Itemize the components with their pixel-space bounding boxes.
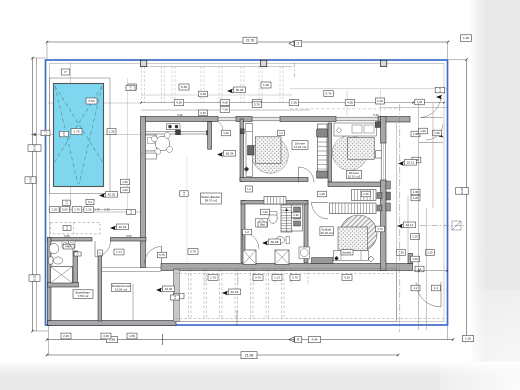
door arc terrace right [416,282,441,307]
svg-text:1.2: 1.2 [129,86,133,90]
counter edge [141,152,157,154]
side yard line [127,78,129,210]
svg-text:8.10: 8.10 [33,275,37,281]
svg-text:1.26: 1.26 [434,131,440,135]
room label bed2 [347,171,362,179]
pergola post 1 [141,60,147,66]
wall midblock west [241,201,245,263]
bottom dimension line 2 [46,352,399,359]
wall top segment D [378,117,410,123]
svg-text:5.76: 5.76 [190,250,196,254]
wall midblock north [241,201,308,205]
upper dim line 2 [141,91,310,112]
svg-text:Bad: Bad [260,223,265,227]
left dimension lines [31,57,48,332]
svg-text:42.02: 42.02 [231,290,239,294]
wardrobe boxes east [386,181,391,211]
right corridor dim lines [397,103,434,330]
pier bottom right [408,254,413,264]
room label bed3 [341,250,353,255]
svg-text:60.38: 60.38 [226,151,234,155]
pergola marker [227,87,246,93]
wardrobe between beds [317,124,328,178]
terrace tick [236,310,238,326]
top-right corner dim label [461,35,472,42]
svg-text:21.08: 21.08 [245,353,254,357]
window top 3 [336,117,378,121]
bath door arc [243,233,260,250]
svg-text:1.75: 1.75 [74,208,80,212]
right dim label [456,187,469,195]
terrace outline [174,269,397,322]
svg-text:5,36: 5,36 [373,113,379,117]
wall annex top b [111,238,147,242]
wall annex bottom [48,321,177,326]
svg-text:3.5: 3.5 [62,132,66,136]
pool dim row line [49,210,147,213]
svg-text:5.05: 5.05 [64,234,70,238]
kitchen label [222,130,231,136]
dashed area 1 [51,222,101,234]
gate arc upper [421,96,444,118]
wall beds east lower [381,180,387,271]
bottom dim label b [309,336,321,342]
top dimension line [46,37,449,59]
pergola label 1 [128,84,137,90]
svg-text:1.2: 1.2 [64,200,68,204]
svg-text:5.50: 5.50 [88,99,94,103]
svg-text:2.26: 2.26 [63,334,69,338]
bottom axis marker [289,337,302,343]
grey margin right [470,0,520,390]
svg-text:2: 2 [297,42,299,46]
svg-text:1.36: 1.36 [122,180,128,184]
staircase [281,205,292,232]
bottom dim labels row [208,275,352,281]
svg-text:10.12: 10.12 [406,223,414,227]
svg-text:4.36: 4.36 [103,334,109,338]
svg-text:7.09: 7.09 [222,108,228,112]
bed2 fixture [376,151,382,159]
wall midblock east [304,201,308,263]
kids room label [112,284,131,292]
svg-text:1.2: 1.2 [129,210,133,214]
svg-text:13.96: 13.96 [460,187,464,195]
svg-text:1.20: 1.20 [417,100,423,104]
wall bed1 west [240,119,244,182]
corridor label small [246,186,253,192]
wall top segment A [141,117,218,122]
pool label right [107,129,116,135]
svg-text:1.76: 1.76 [210,276,216,280]
pergola post 2 [261,60,267,66]
svg-text:1.13: 1.13 [274,276,280,280]
svg-text:10.12: 10.12 [407,160,415,164]
thin divider x133 [132,284,134,320]
elevation marker east1 [398,160,417,166]
pergola label 5 [261,82,271,88]
svg-text:1.26: 1.26 [412,235,418,239]
bed 2 with rug [332,122,380,171]
svg-text:1.26: 1.26 [52,208,58,212]
svg-text:5.75: 5.75 [159,253,165,257]
pool dim row labels [50,199,136,214]
kitchen marker [217,151,236,157]
svg-text:2.30: 2.30 [104,208,110,212]
window top 1 [218,117,236,121]
wall interior x98 [98,252,102,322]
svg-text:1.26: 1.26 [412,257,418,261]
bottom-right corner dim label [463,335,474,341]
door arc annex [95,241,111,257]
plain text 5.05a [64,234,70,238]
wall bottom main [161,264,413,271]
svg-text:14.00 m2: 14.00 m2 [115,288,128,292]
svg-text:4.00: 4.00 [222,101,228,105]
svg-text:HWR: HWR [65,245,71,249]
door arc bed3 [312,202,329,219]
kitchen door arc [218,122,223,132]
svg-text:2.30: 2.30 [200,111,206,115]
floor rot label [180,191,189,197]
svg-text:3.96: 3.96 [29,177,33,183]
wall text 5.36a [177,113,183,117]
wall bed1 south [240,178,308,182]
pool label rot [60,131,69,137]
svg-text:2.28: 2.28 [200,92,206,96]
svg-text:1.2: 1.2 [414,286,418,290]
bed 3 with round rug [334,215,378,262]
bottom rot label [174,293,184,299]
pergola label 2 [179,84,189,90]
svg-text:1.89: 1.89 [129,334,135,338]
pergola beams [141,62,447,116]
bathroom fixtures [256,212,310,259]
svg-text:1.2: 1.2 [245,230,249,234]
svg-text:5.36: 5.36 [181,85,187,89]
stair arrow [285,208,288,232]
shaft X 1 [275,250,289,265]
door arc hall [299,167,315,183]
bottom dimension line 1 [46,326,454,355]
grid line y134 with arrow [31,133,141,136]
left dim label 2 [25,177,36,184]
svg-text:60.38: 60.38 [271,240,279,244]
pool deck outline [50,78,111,194]
svg-text:1.02: 1.02 [377,99,383,103]
bottom dim label a [107,336,118,342]
scattered dim labels [121,110,442,291]
svg-text:1.2: 1.2 [44,131,48,135]
elevation marker right [436,95,442,100]
svg-text:1.76: 1.76 [377,227,383,231]
left dim label 1 [28,144,41,152]
dashed area marker [110,224,129,230]
svg-text:16.10 m2: 16.10 m2 [320,231,333,235]
svg-text:5.76: 5.76 [292,276,298,280]
svg-text:5.76: 5.76 [255,276,261,280]
right axis line [420,221,464,230]
elevation marker hall [262,239,281,245]
wall top segment C [280,117,336,122]
svg-text:21.76: 21.76 [246,39,254,43]
svg-text:1.2: 1.2 [438,88,442,92]
svg-text:5.50: 5.50 [62,208,68,212]
dashed area label rot [63,226,71,231]
wardrobe strip 2 [330,203,383,214]
svg-text:5.76: 5.76 [254,103,260,107]
top axis marker [289,41,302,47]
svg-text:1.26: 1.26 [420,129,426,133]
window top 2 [252,117,280,121]
svg-text:14.36: 14.36 [33,144,37,152]
pool label on boundary [41,130,50,136]
wall mid horizontal [328,182,386,187]
svg-text:1.36: 1.36 [413,132,419,136]
pool label 5.50 [86,98,97,104]
svg-text:1.26: 1.26 [223,131,229,135]
gate label [415,99,425,105]
ne corner rot label [435,87,445,93]
wall wc horizontal [48,283,79,288]
grey corner glow [440,290,520,390]
svg-text:2.36: 2.36 [363,192,369,196]
svg-text:1.26: 1.26 [319,192,325,196]
wall bed divider [328,123,332,182]
svg-text:10.36: 10.36 [165,287,173,291]
room label bed1 [292,141,308,150]
svg-text:1.2: 1.2 [65,226,69,230]
svg-text:42.02: 42.02 [119,225,127,229]
svg-text:1.26: 1.26 [108,130,114,134]
wall top segment B [236,117,252,122]
svg-text:4.00: 4.00 [347,101,353,105]
kitchen counter and cooktop [146,124,211,135]
svg-text:60.38: 60.38 [236,88,244,92]
round dining table with chairs [152,133,173,155]
svg-text:1.2: 1.2 [247,187,251,191]
svg-text:1.02: 1.02 [263,83,269,87]
grid line y103 [48,102,141,104]
svg-text:1.36: 1.36 [413,190,419,194]
svg-text:15.10 m2: 15.10 m2 [348,175,361,179]
svg-text:1.75: 1.75 [73,130,79,134]
terrace marker 2 [222,289,241,295]
svg-text:1.71: 1.71 [116,250,122,254]
wall wc vertical [73,251,78,284]
annex bottom labels [61,333,137,339]
upper dim line [140,102,445,104]
window east [381,143,385,180]
bed3 hall label [320,227,334,236]
svg-text:4.26: 4.26 [176,101,182,105]
svg-text:1.76: 1.76 [94,208,100,212]
gate arc lower [419,125,444,143]
technik label [73,290,93,299]
inner offset line [50,64,445,322]
wall annex top [48,238,93,242]
svg-text:42.02: 42.02 [108,192,116,196]
swimming pool [54,84,104,187]
svg-text:14.20 m2: 14.20 m2 [294,145,307,149]
shaft X 2 [243,250,256,265]
svg-text:1.3: 1.3 [173,295,177,299]
east dim line h [380,107,447,109]
side yard rot label [126,85,135,91]
living room label [201,193,222,204]
svg-text:7.50 m2: 7.50 m2 [78,294,89,298]
terrace dashed joints [175,269,444,319]
svg-text:38.70 m2: 38.70 m2 [205,199,218,203]
wall left main [141,117,146,268]
pool elevation marker [99,192,118,198]
kitchen divider wall [208,122,212,149]
right axis dashdot [399,104,401,332]
label 5.76b [188,249,198,255]
wardrobe strip 1 [352,190,383,201]
svg-text:Schlafz.: Schlafz. [342,250,352,254]
svg-text:1.26: 1.26 [465,337,471,341]
svg-text:8: 8 [297,338,299,342]
kitchen sink counter [146,135,158,159]
svg-text:1.26: 1.26 [86,208,92,212]
wall text 5.36b [373,113,379,117]
pergola label 4 [376,98,385,104]
annex wc fixtures [49,241,102,264]
svg-text:1.1: 1.1 [279,131,283,135]
svg-text:1.20: 1.20 [122,188,128,192]
svg-text:1.26: 1.26 [262,210,268,214]
left dim label 3 [29,275,40,282]
svg-text:1.3: 1.3 [434,286,438,290]
svg-text:1.26: 1.26 [413,196,419,200]
bath label [258,222,267,227]
closet by stairs [292,205,303,231]
svg-text:4.04: 4.04 [311,338,317,342]
svg-text:4.26: 4.26 [344,276,350,280]
svg-text:1.2: 1.2 [182,191,186,195]
door arc living [145,247,162,264]
bottom right dim stub [413,270,448,272]
pergola post 3 [381,60,387,66]
wall beds east upper [381,117,387,144]
svg-text:2.36: 2.36 [291,101,297,105]
sideboard bed3 [312,258,334,264]
kids marker [156,286,175,292]
plain text 5.05b [126,234,132,238]
svg-text:5.76: 5.76 [325,92,331,96]
grey margin bottom [0,362,520,390]
terrace rot label [171,295,180,300]
floor boundary living [186,155,188,263]
svg-text:P: P [64,70,66,74]
svg-text:1.26: 1.26 [427,251,433,255]
plot boundary (blue) [46,60,448,325]
label 1.71 [114,249,124,255]
pool label 1.75 [71,129,82,135]
svg-text:5.05: 5.05 [126,234,132,238]
svg-text:2.36: 2.36 [293,213,299,217]
svg-text:5.2: 5.2 [88,200,92,204]
upper dim labels [174,91,355,106]
floor edge line [102,268,162,272]
bed1 small label [278,131,285,136]
bed 1 with rug [241,124,289,177]
stair lower flight [264,197,286,205]
right outer dimension line [448,58,468,342]
svg-text:1.26: 1.26 [463,36,469,40]
terrace west pillar [174,270,180,322]
pool deck label [61,69,69,75]
svg-text:1.36: 1.36 [398,251,404,255]
elevation marker east2 [397,222,416,228]
pool axis vertical [69,62,72,210]
shaft X annex [51,267,73,284]
wall annex left [48,238,52,326]
bottom dim guides [205,269,308,286]
